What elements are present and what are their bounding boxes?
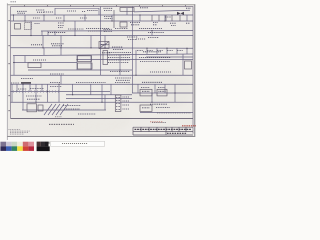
sheet top edge: [7, 3, 195, 6]
label group x86: [87, 10, 98, 12]
component cluster x112 y47: [112, 46, 123, 48]
wire bus P y102.2: [11, 101, 194, 103]
caption text center-bottom: [49, 123, 74, 125]
wire drop x165 top: [164, 15, 166, 21]
photographic label strip: [51, 141, 105, 146]
wire bus F y55.3: [13, 54, 193, 56]
color calibration bar: saturated row: [0, 146, 34, 151]
label x142 y82: [142, 81, 162, 83]
component cluster x106-130 y52-65 dense: [107, 52, 131, 54]
label row y28 x66: [68, 28, 84, 30]
wire bus L y91.5: [11, 91, 111, 93]
label group x58: [67, 10, 76, 12]
color calibration bar: tint row: [0, 142, 34, 147]
wire drop x157: [156, 48, 158, 54]
wire drop x55 feed: [54, 8, 56, 15]
wire drop x152 mid: [151, 31, 153, 36]
wire bus Q y110: [22, 109, 106, 111]
wire drop x136 low: [135, 50, 137, 75]
wire drop x48: [47, 31, 49, 36]
component cluster x101 y44-53: [101, 44, 110, 46]
gray scale wedge block: [37, 142, 50, 151]
label x48 y32.5: [48, 32, 66, 34]
wire drop x105: [104, 36, 106, 48]
wire bus C y31: [41, 30, 193, 32]
wire drop x91: [90, 36, 92, 48]
label x150 y104: [150, 103, 167, 105]
caption text right (figure number): [152, 122, 166, 124]
label A2 inside: [101, 44, 108, 46]
label K5 inside: [159, 90, 166, 92]
component cluster right band y57-63: [139, 57, 171, 59]
re-order stamp red left part: [150, 121, 163, 123]
label group x72: [82, 11, 86, 13]
label group x44: [44, 11, 53, 13]
wire drop x167: [166, 48, 168, 54]
component cluster labels: emulated tiny text rows: [11, 8, 191, 114]
label x50 y74: [50, 73, 64, 75]
module box A4 top mid: [120, 8, 134, 12]
small labels between rails: [33, 17, 40, 19]
wire drop x30 bottom: [29, 84, 31, 91]
wire drop x75 mid: [74, 21, 76, 36]
label K4 inside: [142, 90, 150, 92]
wire drop x23 bottom: [22, 84, 24, 110]
wire drop x85 top: [84, 15, 86, 21]
sheet right edge: [194, 4, 195, 136]
wire stub x114: [113, 10, 115, 28]
wire drop x152 bottom2: [151, 93, 153, 102]
component cluster x50 y44: [51, 43, 64, 45]
wire drop x187 mid: [186, 48, 188, 54]
component cluster x58 y23: [58, 22, 64, 24]
border zone letters left margin: [9, 20, 10, 111]
dark blob x21 y82: [21, 82, 31, 84]
component boxes: [15, 8, 192, 112]
relay box K7 x120 y22: [120, 22, 127, 27]
wire drop x90 bottom: [90, 84, 92, 94]
wire drop x36 bottom: [35, 84, 37, 102]
relay box K1a: [15, 24, 21, 30]
inner border frame: [11, 7, 194, 134]
title block text row 1: [135, 128, 192, 130]
wire drop x177: [176, 48, 178, 54]
schematic sheet background: [7, 4, 195, 136]
wire drop x111 bottom: [110, 84, 112, 94]
wire drop x147: [146, 48, 148, 54]
label x130 y22-25: [130, 22, 140, 24]
label K4 y87.5: [141, 87, 150, 89]
wire drop x112 top: [111, 15, 113, 21]
wire bus G2 y57 right: [146, 56, 193, 58]
wire bus H y62.5: [13, 62, 77, 64]
title block text row 2: [167, 132, 187, 134]
page annotation top-left: [11, 1, 17, 3]
label x33 y60: [33, 59, 46, 61]
sheet bottom edge: [7, 136, 195, 137]
hatched wires diagonal x43-60 y104-115: [44, 104, 68, 115]
label y88 ticks row: [30, 88, 44, 90]
junction dots: [13, 14, 188, 102]
label x18 y89: [18, 88, 27, 90]
label x150 y72: [150, 71, 171, 73]
label x10 y83: [11, 82, 19, 84]
label strip text: [62, 143, 88, 145]
wire drop x31 mid: [30, 21, 32, 36]
label x21 y78: [21, 78, 33, 80]
wire divider x100.5: [100, 7, 102, 76]
relay box K2: [78, 56, 92, 62]
wire drop x187 top: [186, 15, 188, 21]
transformer T1 bowtie mark: [177, 12, 184, 15]
label above border x55 y117: [55, 116, 62, 118]
wire drop x120 low: [119, 55, 121, 75]
label row y23 left: [35, 23, 40, 25]
wire drop x127 feed: [126, 8, 128, 15]
label x186 y23: [186, 22, 190, 24]
wire bus E y47.8: [11, 47, 194, 49]
module box A3 vertical: [115, 95, 121, 112]
wire drop x61 mid: [60, 36, 62, 56]
connector table x102-121 y50-64: [103, 51, 108, 65]
wire bus rails: [11, 9, 194, 113]
component marks x155-190 y107-113: [156, 107, 170, 109]
relay box K4: [140, 89, 152, 96]
relay box K3: [78, 63, 93, 69]
wire bus O y98.6: [66, 98, 132, 100]
title block frame: [133, 127, 193, 135]
wire bus A y15: [11, 14, 194, 16]
wire tick x180: [179, 15, 181, 21]
wire bus A0 y8.6: [55, 8, 99, 10]
label row y39 x135: [136, 38, 146, 40]
wire drop x61 low2: [60, 75, 62, 84]
label x142 y51: [143, 51, 161, 53]
wire drop x59 bottom: [58, 84, 60, 102]
component cluster x115 y78: [115, 77, 131, 79]
wire tick x159: [158, 15, 160, 21]
wire drop x155 bottom: [154, 84, 156, 93]
label x170 y23: [170, 22, 176, 24]
wire drop x140 top: [139, 15, 141, 21]
bottom border rule: [11, 117, 194, 119]
label row y28 x138: [139, 28, 162, 30]
wire bus J y75.2: [11, 74, 194, 76]
wire tick x166: [165, 15, 167, 21]
wire drop x42: [41, 31, 43, 36]
wire ladder ticks rail L: [13, 90, 61, 92]
wire drop x183 low: [182, 54, 184, 75]
relay box K5: [157, 89, 167, 96]
wire drop x44 top: [43, 15, 45, 21]
module A3 pin ticks: [116, 97, 120, 99]
wire drop x44 mid: [43, 48, 45, 56]
label x78 y114: [78, 113, 96, 115]
wire drop x17 bottom: [16, 84, 18, 91]
wire drop x25 top: [24, 15, 26, 21]
wire tick x152: [151, 15, 153, 21]
wire bus R y112.6: [140, 112, 193, 114]
label y95-100 left cluster: [26, 95, 42, 97]
wire drop x72 bottom: [72, 84, 74, 94]
wire bus A2 y11 right: [134, 10, 190, 12]
wire drop x55: [54, 31, 56, 36]
label x62-105 y105-111: [63, 105, 81, 107]
connector J2 right: [185, 61, 192, 69]
wire bus D y35.5: [11, 35, 194, 37]
wire bus M y93 right: [132, 92, 193, 94]
wire bus G y59.5: [77, 59, 193, 61]
label x31 y44: [31, 44, 43, 46]
label group x27: [36, 9, 45, 11]
sheet left edge: [6, 3, 9, 140]
label row y28 x86 dense: [86, 28, 109, 30]
label x165 y17: [165, 16, 171, 18]
wire drop x102 bottom: [101, 84, 103, 102]
relay box K6: [140, 105, 152, 111]
wire drop x14 low: [13, 56, 15, 76]
wire drop x91 low: [90, 55, 92, 70]
label K6 inside: [142, 107, 150, 109]
label x127 y37: [127, 36, 138, 38]
wire drop x138 bottom: [137, 84, 139, 93]
label T.M. group left: [17, 10, 27, 12]
label x76 y82.5: [76, 82, 106, 84]
wire drop x99 feed: [98, 8, 100, 15]
component cluster U-top-mid labels: [104, 7, 113, 9]
module box A1: [28, 63, 41, 68]
wire vertical drops: [12, 7, 187, 111]
label x153 y22-25: [153, 22, 158, 24]
module box A2: [99, 42, 109, 49]
label row y32 x147: [148, 32, 164, 34]
wire tick x172: [171, 15, 173, 21]
label K5 y87.5: [158, 87, 165, 89]
wire drop x12 bottom: [11, 84, 13, 102]
wire divider x132.5: [132, 7, 134, 94]
wire bus B y21: [11, 20, 194, 22]
label x115 y28.5: [115, 28, 128, 30]
component cluster boxes x26-43 y103: [27, 104, 37, 112]
wire drop x47 bottom: [47, 84, 49, 102]
wire drop x105 bottom2: [104, 95, 106, 110]
label x109 y71: [110, 71, 130, 73]
sheet number top right: [186, 7, 191, 9]
notes text block bottom-left: [9, 130, 31, 135]
border zone tick dots top: [24, 5, 186, 6]
rail E component stubs: [137, 50, 143, 52]
component marks x122 y96-110: [123, 96, 130, 98]
wire drop x42 bottom: [41, 84, 43, 91]
wire drop x175 bottom: [174, 84, 176, 102]
relay box K1b: [25, 23, 32, 30]
wire drop x77 low: [76, 55, 78, 70]
wire drop x165 bottom: [164, 84, 166, 93]
label x140 y7.5: [140, 7, 148, 9]
wire drop x13.5: [13, 15, 15, 21]
wire drop x64 top: [63, 15, 65, 21]
wire drop x25 low: [24, 56, 26, 63]
wire bus I y70: [28, 69, 132, 71]
wire bus N y94.7: [66, 94, 132, 96]
label x50 y82: [50, 82, 60, 84]
re-order number red text: [182, 125, 196, 127]
wire drop x43: [42, 36, 44, 48]
wire bus K y84.3: [11, 83, 194, 85]
